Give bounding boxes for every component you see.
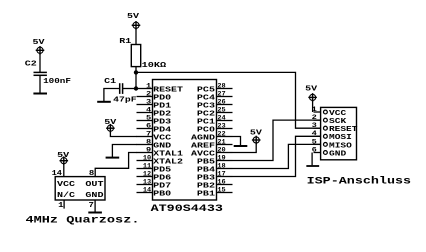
wire bbox=[104, 89, 120, 102]
pin 9 XTAL1 bbox=[137, 152, 153, 154]
wire ISP pin 6 to ground bbox=[311, 153, 313, 166]
node R1/RESET junction bbox=[134, 70, 138, 74]
pin 5 ISP MISO bbox=[314, 143, 321, 145]
pin 3 PD1 bbox=[137, 104, 153, 106]
svg-text:3: 3 bbox=[146, 98, 152, 105]
pin 23 PC0 bbox=[217, 128, 233, 130]
svg-text:2: 2 bbox=[146, 90, 152, 97]
svg-text:GND: GND bbox=[85, 192, 103, 200]
svg-text:PC5: PC5 bbox=[197, 86, 215, 94]
svg-text:20: 20 bbox=[217, 146, 226, 153]
pin 27 PC4 bbox=[217, 96, 233, 98]
svg-text:5V: 5V bbox=[305, 86, 318, 94]
ground bbox=[306, 165, 319, 167]
svg-text:XTAL2: XTAL2 bbox=[153, 158, 183, 166]
svg-text:17: 17 bbox=[217, 170, 226, 177]
svg-text:7: 7 bbox=[89, 202, 94, 210]
pin 1 oscillator N/C bbox=[63, 200, 65, 209]
pin 7 VCC bbox=[137, 136, 153, 138]
svg-text:N/C: N/C bbox=[57, 192, 75, 200]
pin 7 oscillator GND bbox=[94, 200, 96, 212]
svg-text:4: 4 bbox=[312, 130, 318, 137]
svg-text:PC4: PC4 bbox=[197, 94, 215, 102]
svg-text:4MHz Quarzosz.: 4MHz Quarzosz. bbox=[26, 216, 140, 227]
wire bbox=[312, 100, 314, 112]
svg-text:PD6: PD6 bbox=[153, 174, 171, 182]
svg-text:47pF: 47pF bbox=[113, 97, 136, 105]
svg-text:15: 15 bbox=[217, 186, 226, 193]
pin 22 AGND bbox=[217, 136, 233, 138]
pin 1 ISP VCC bbox=[314, 111, 321, 113]
svg-text:1: 1 bbox=[146, 82, 152, 89]
pin 19 PB5 bbox=[217, 160, 233, 162]
svg-text:MISO: MISO bbox=[329, 142, 352, 150]
svg-text:PB4: PB4 bbox=[197, 166, 215, 174]
svg-text:21: 21 bbox=[217, 138, 226, 145]
svg-text:PB5: PB5 bbox=[197, 158, 215, 166]
svg-text:11: 11 bbox=[143, 162, 152, 169]
pin 2 ISP SCK bbox=[314, 119, 321, 121]
svg-text:PB3: PB3 bbox=[197, 174, 215, 182]
ground bbox=[106, 157, 120, 159]
svg-text:26: 26 bbox=[217, 98, 226, 105]
ground bbox=[234, 145, 248, 147]
wire bbox=[233, 143, 257, 153]
connector ISP body bbox=[321, 107, 357, 159]
pin 17 PB3 bbox=[217, 176, 233, 178]
svg-text:25: 25 bbox=[217, 106, 226, 113]
pin 28 PC5 bbox=[217, 88, 233, 90]
pin 20 AVCC bbox=[217, 152, 233, 154]
svg-text:VCC: VCC bbox=[153, 134, 171, 142]
wire bbox=[110, 131, 137, 136]
oscillator Q1 4MHz body bbox=[55, 177, 105, 200]
svg-text:24: 24 bbox=[217, 114, 226, 121]
resistor R1 bbox=[131, 45, 140, 67]
svg-text:5V: 5V bbox=[33, 39, 46, 47]
ground bbox=[88, 212, 102, 214]
pin 4 ISP MOSI bbox=[314, 135, 321, 137]
wire bbox=[39, 53, 41, 72]
svg-text:19: 19 bbox=[217, 154, 226, 161]
pin 3 ISP RESET bbox=[314, 127, 321, 129]
wire GND pin 8 to ground bbox=[112, 145, 137, 158]
pin 24 PC1 bbox=[217, 120, 233, 122]
pin 21 AREF bbox=[217, 144, 233, 146]
svg-text:ISP-Anschluss: ISP-Anschluss bbox=[307, 175, 412, 187]
svg-text:16: 16 bbox=[217, 178, 226, 185]
svg-text:PD0: PD0 bbox=[153, 94, 171, 102]
svg-text:PC2: PC2 bbox=[197, 110, 215, 118]
svg-text:RESET: RESET bbox=[153, 86, 183, 94]
pin 11 PD5 bbox=[137, 168, 153, 170]
wire bbox=[39, 75, 41, 93]
svg-text:28: 28 bbox=[217, 82, 226, 89]
pin 1 RESET bbox=[137, 88, 153, 90]
svg-text:8: 8 bbox=[89, 170, 95, 178]
svg-text:PD5: PD5 bbox=[153, 166, 171, 174]
svg-text:R1: R1 bbox=[119, 38, 131, 46]
svg-text:PB2: PB2 bbox=[197, 182, 215, 190]
wire XTAL1 to oscillator OUT bbox=[95, 153, 137, 177]
svg-text:27: 27 bbox=[217, 90, 226, 97]
svg-text:6: 6 bbox=[146, 122, 152, 129]
svg-text:8: 8 bbox=[146, 138, 152, 145]
svg-text:18: 18 bbox=[217, 162, 226, 169]
ground bbox=[33, 93, 47, 95]
svg-text:PD1: PD1 bbox=[153, 102, 171, 110]
pin 6 PD4 bbox=[137, 128, 153, 130]
svg-text:4: 4 bbox=[146, 106, 152, 113]
pin 18 PB4 bbox=[217, 168, 233, 170]
pin 5 PD3 bbox=[137, 120, 153, 122]
svg-text:XTAL1: XTAL1 bbox=[153, 150, 183, 158]
svg-text:VCC: VCC bbox=[57, 181, 75, 189]
pin 25 PC2 bbox=[217, 112, 233, 114]
capacitor C2 bbox=[34, 71, 47, 73]
pin 14 PB0 bbox=[137, 192, 153, 194]
svg-text:SCK: SCK bbox=[329, 118, 347, 126]
svg-text:PD4: PD4 bbox=[153, 126, 171, 134]
svg-text:C1: C1 bbox=[104, 78, 116, 86]
wire bbox=[135, 67, 137, 90]
wire SCK PB5 to ISP pin 2 bbox=[233, 120, 321, 160]
svg-text:PD7: PD7 bbox=[153, 182, 171, 190]
svg-text:3: 3 bbox=[312, 122, 318, 129]
svg-text:AREF: AREF bbox=[191, 142, 215, 150]
svg-text:GND: GND bbox=[153, 142, 171, 150]
svg-text:PB0: PB0 bbox=[153, 190, 171, 198]
wire AGND pin 22 to ground bbox=[233, 137, 241, 146]
pin 8 GND bbox=[137, 144, 153, 146]
IC U1 AT90S4433 body bbox=[153, 80, 217, 201]
svg-text:13: 13 bbox=[143, 178, 152, 185]
pin 26 PC3 bbox=[217, 104, 233, 106]
svg-text:10: 10 bbox=[143, 154, 152, 161]
wire bbox=[135, 28, 137, 44]
svg-text:9: 9 bbox=[146, 146, 152, 153]
svg-text:C2: C2 bbox=[25, 61, 37, 69]
wire RESET net to ISP pin 3 bbox=[136, 72, 321, 128]
svg-text:14: 14 bbox=[143, 186, 152, 193]
node C1/RESET junction bbox=[134, 86, 138, 90]
svg-text:AT90S4433: AT90S4433 bbox=[151, 204, 223, 215]
pin 10 XTAL2 bbox=[137, 160, 153, 162]
capacitor C1 bbox=[119, 83, 121, 94]
svg-text:10KΩ: 10KΩ bbox=[142, 62, 168, 70]
svg-text:PC1: PC1 bbox=[197, 118, 215, 126]
pin 15 PB1 bbox=[217, 192, 233, 194]
svg-text:PD2: PD2 bbox=[153, 110, 171, 118]
svg-text:PD3: PD3 bbox=[153, 118, 171, 126]
wire MOSI PB3 to ISP pin 4 bbox=[233, 136, 321, 176]
svg-text:RESET: RESET bbox=[329, 126, 357, 134]
pin 13 PD7 bbox=[137, 184, 153, 186]
wire bbox=[123, 88, 137, 90]
svg-text:2: 2 bbox=[312, 114, 318, 121]
svg-text:AGND: AGND bbox=[191, 134, 215, 142]
svg-text:12: 12 bbox=[143, 170, 152, 177]
svg-text:PB1: PB1 bbox=[197, 190, 215, 198]
svg-text:6: 6 bbox=[312, 146, 318, 153]
pin 12 PD6 bbox=[137, 176, 153, 178]
svg-text:100nF: 100nF bbox=[43, 78, 71, 86]
ground bbox=[97, 101, 111, 103]
svg-text:1: 1 bbox=[58, 202, 64, 210]
svg-text:PC3: PC3 bbox=[197, 102, 215, 110]
svg-text:AVCC: AVCC bbox=[191, 150, 215, 158]
pin 16 PB2 bbox=[217, 184, 233, 186]
svg-text:PC0: PC0 bbox=[197, 126, 215, 134]
svg-text:7: 7 bbox=[146, 130, 152, 137]
pin 4 PD2 bbox=[137, 112, 153, 114]
svg-text:5: 5 bbox=[146, 114, 152, 121]
pin 2 PD0 bbox=[137, 96, 153, 98]
svg-text:MOSI: MOSI bbox=[329, 134, 352, 142]
svg-text:GND: GND bbox=[329, 150, 346, 158]
pin 6 ISP GND bbox=[314, 152, 321, 154]
wire bbox=[63, 164, 65, 177]
svg-text:5: 5 bbox=[312, 138, 318, 145]
svg-text:22: 22 bbox=[217, 130, 226, 137]
svg-text:VCC: VCC bbox=[329, 110, 346, 118]
svg-text:OUT: OUT bbox=[85, 181, 103, 189]
svg-text:14: 14 bbox=[52, 170, 63, 178]
wire MISO PB4 to ISP pin 5 bbox=[233, 144, 321, 168]
svg-text:23: 23 bbox=[217, 122, 226, 129]
svg-text:5V: 5V bbox=[127, 13, 140, 21]
